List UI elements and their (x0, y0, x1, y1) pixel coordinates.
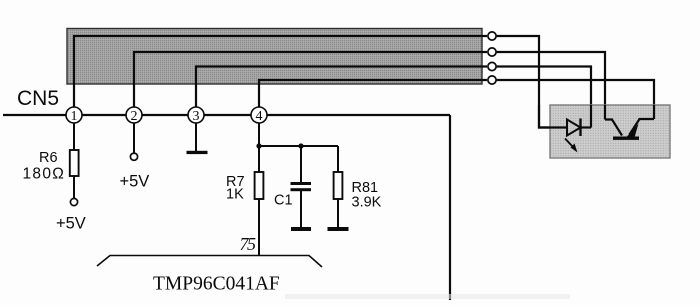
svg-text:1: 1 (71, 109, 78, 124)
ground (pin3) (187, 151, 208, 154)
wire R6 to +5V terminal (73, 176, 75, 199)
wire C1 top (300, 146, 302, 183)
LED diode (optocoupler emitter) (567, 119, 591, 137)
capacitor C1 (291, 182, 312, 191)
wire R7 to IC pin 75 (258, 199, 260, 255)
IC TMP96C041AF outline (97, 256, 322, 268)
svg-text:3: 3 (193, 109, 200, 124)
pin 1 of CN5 (66, 107, 82, 124)
wire pin4 down to node (258, 123, 260, 146)
wire node to R81 (259, 145, 338, 147)
wire pin3 to ground (195, 123, 197, 151)
terminal circle 3 on bus right edge (488, 62, 496, 70)
re-draw wires over box (539, 105, 567, 128)
terminal circle 1 on bus right edge (488, 32, 496, 40)
svg-text:3.9K: 3.9K (352, 195, 382, 211)
wire pin1 to bus and across band (74, 36, 487, 108)
resistor R7 (255, 172, 264, 199)
optocoupler box (550, 105, 670, 158)
node junction at pin4/R7 (256, 143, 261, 148)
wire terminal4 to phototransistor right lead (497, 80, 654, 119)
wire pin2 down (133, 123, 135, 153)
svg-text:2: 2 (131, 109, 138, 124)
svg-text:R6: R6 (39, 150, 58, 166)
+5V terminal (pin2) (130, 153, 137, 160)
node junction at C1 top (298, 143, 303, 148)
shaded bus band (67, 29, 482, 85)
svg-text:1K: 1K (226, 187, 244, 203)
ground under R81 (328, 227, 349, 231)
svg-text:+5V: +5V (56, 215, 86, 233)
wire node to R7 (258, 146, 260, 172)
terminal circle 2 on bus right edge (488, 48, 496, 56)
+5V terminal (pin1) (70, 198, 77, 205)
wire terminal2 to phototransistor left lead (497, 52, 605, 120)
svg-text:75: 75 (240, 234, 257, 254)
wire pin2 to bus and across band (134, 52, 487, 108)
wire C1 to ground (300, 191, 302, 228)
wire terminal1 to LED anode (497, 36, 567, 128)
resistor R81 (334, 172, 343, 199)
wire: main horizontal net (3, 114, 450, 116)
LED light arrow (565, 139, 578, 153)
wire R81 top (337, 146, 339, 172)
scan noise strip at bottom (285, 294, 570, 299)
svg-text:CN5: CN5 (17, 87, 59, 110)
wire terminal3 to LED cathode (497, 67, 591, 128)
svg-text:4: 4 (256, 109, 263, 124)
svg-text:+5V: +5V (120, 173, 150, 191)
terminal circle 4 on bus right edge (488, 76, 496, 84)
ground under C1 (291, 227, 311, 231)
pin 4 of CN5 (251, 107, 267, 124)
wire: vertical from main net down to IC area (449, 115, 451, 300)
svg-text:C1: C1 (274, 193, 293, 209)
resistor R6 (70, 150, 79, 176)
wire R81 to ground (337, 199, 339, 228)
svg-text:180Ω: 180Ω (23, 166, 66, 183)
phototransistor (605, 119, 654, 140)
wire pin4 to bus and across band (259, 80, 487, 108)
pin 3 of CN5 (188, 107, 204, 124)
wire pin3 to bus and across band (196, 67, 487, 109)
svg-text:TMP96C041AF: TMP96C041AF (153, 274, 280, 295)
wire pin1 down to R6 (73, 123, 75, 150)
pin 2 of CN5 (126, 107, 142, 124)
